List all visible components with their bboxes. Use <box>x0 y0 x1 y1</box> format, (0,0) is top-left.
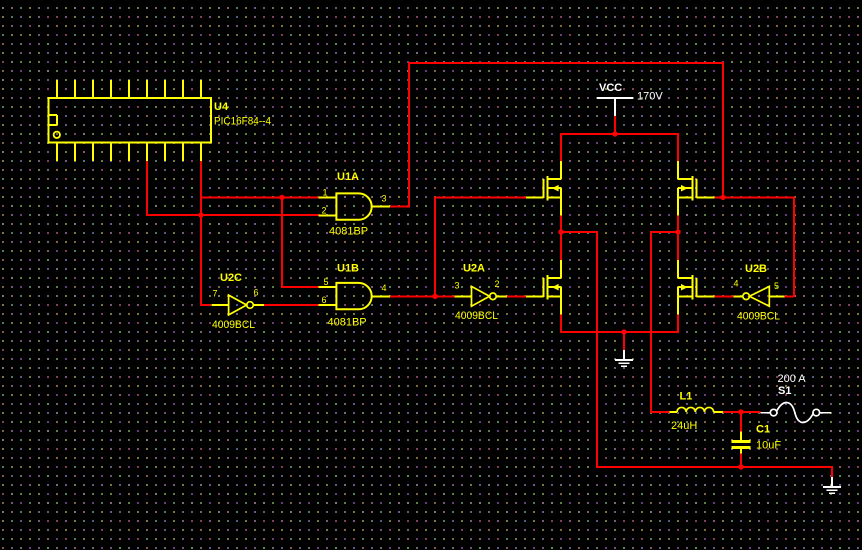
junction node B <box>279 195 284 200</box>
junction node Q2 gate <box>720 195 725 200</box>
wire left output vertical <box>596 231 598 468</box>
svg-text:VCC: VCC <box>599 82 622 94</box>
junction node VCC tap <box>612 131 617 136</box>
ground bottom right <box>823 477 841 493</box>
junction node mid-left <box>558 229 563 234</box>
wire to L1 left <box>651 411 669 413</box>
svg-text:4009BCL: 4009BCL <box>455 310 498 322</box>
inverter U2C 4009BCL <box>212 295 265 315</box>
svg-text:4: 4 <box>734 279 739 289</box>
wire U4 pin to U2C vertical <box>200 160 202 306</box>
svg-text:200 A: 200 A <box>778 373 807 385</box>
svg-text:PIC16F84--4: PIC16F84--4 <box>214 116 271 128</box>
svg-text:4009BCL: 4009BCL <box>212 319 255 331</box>
wire right output vertical <box>650 231 652 413</box>
wire bottom load rail <box>596 466 833 468</box>
MOSFET Q3 lower-left <box>526 260 561 315</box>
wire ground lead <box>623 332 625 350</box>
svg-text:1: 1 <box>323 188 328 198</box>
wire rail to Q2 drain <box>677 133 679 161</box>
svg-text:4: 4 <box>382 283 387 293</box>
svg-text:170V: 170V <box>637 91 663 103</box>
wire Q3 source down <box>560 315 562 334</box>
wire branch to U1B pin5 vertical <box>281 196 283 288</box>
svg-text:10uF: 10uF <box>756 440 781 452</box>
MOSFET Q1 upper-left <box>526 161 561 216</box>
wire down to U2B input <box>793 196 795 297</box>
svg-text:S1: S1 <box>778 385 791 397</box>
wire right drop to Q2 gate <box>722 63 724 198</box>
wire U1B pin5 horizontal <box>281 286 319 288</box>
wire U1B out to U2A in <box>388 295 455 297</box>
svg-text:6: 6 <box>254 288 259 298</box>
svg-text:5: 5 <box>324 277 329 287</box>
wire mid node to Q4 drain <box>677 232 679 260</box>
wire Q4 source down <box>677 315 679 334</box>
inverter U2A 4009BCL <box>455 286 508 306</box>
wire U2B input horizontal <box>785 295 795 297</box>
svg-text:5: 5 <box>774 281 779 291</box>
junction node C <box>432 294 437 299</box>
svg-text:U1A: U1A <box>337 171 359 183</box>
wire top horizontal run <box>408 62 724 64</box>
svg-text:3: 3 <box>382 194 387 204</box>
junction node ground tap <box>621 329 626 334</box>
wire Q2 gate node horizontal <box>715 196 795 198</box>
wire VCC lead <box>614 116 616 135</box>
wire Q1 source to mid node <box>560 216 562 234</box>
junction node mid-right <box>675 229 680 234</box>
svg-text:U2C: U2C <box>220 272 242 284</box>
IC U4 PIC16F84--4 <box>48 80 210 161</box>
wire rail to Q1 drain <box>560 133 562 161</box>
junction node A <box>198 212 203 217</box>
svg-text:U2B: U2B <box>745 263 767 275</box>
svg-text:U2A: U2A <box>463 263 485 275</box>
wire U1A output vertical riser <box>408 62 410 207</box>
wire U2B out to Q4 gate <box>714 295 734 297</box>
MOSFET Q2 upper-right <box>678 161 715 216</box>
svg-text:2: 2 <box>322 206 327 216</box>
wire C1 bottom lead wire <box>740 453 742 468</box>
wire mid node to Q3 drain <box>560 232 562 260</box>
ground under H-bridge <box>615 350 633 366</box>
wire L1 right to S1 <box>723 411 760 413</box>
wire U1A pin1 horizontal <box>200 196 319 198</box>
wire U4 pin to U1A pin2 vertical <box>146 160 148 216</box>
wire U2A out to Q3 gate <box>506 295 526 297</box>
svg-text:2: 2 <box>495 279 500 289</box>
wire VCC top rail <box>560 133 679 135</box>
AND gate U1B 4081BP <box>319 283 391 309</box>
junction node C1/rail <box>738 464 743 469</box>
wire mid-right rail <box>650 231 679 233</box>
svg-text:C1: C1 <box>756 424 770 436</box>
wire mid-left rail <box>560 231 597 233</box>
svg-text:24uH: 24uH <box>671 420 697 432</box>
svg-text:7: 7 <box>213 289 218 299</box>
MOSFET Q4 lower-right <box>678 260 715 315</box>
wire U1A pin2 horizontal <box>146 214 319 216</box>
inductor L1 24uH <box>669 407 723 412</box>
svg-text:4009BCL: 4009BCL <box>737 311 780 323</box>
switch S1 (current controlled) <box>760 403 831 423</box>
wire U2C out to U1B pin6 <box>264 304 319 306</box>
wire U1A output horizontal <box>390 206 410 208</box>
wire branch up from U2A node <box>434 196 436 296</box>
junction node L1/C1 <box>738 409 743 414</box>
wire Q2 source to mid node <box>677 216 679 234</box>
svg-text:4081BP: 4081BP <box>328 317 367 329</box>
svg-text:3: 3 <box>455 281 460 291</box>
svg-text:U1B: U1B <box>337 263 359 275</box>
wire source ground rail <box>560 331 679 333</box>
svg-text:U4: U4 <box>214 101 229 113</box>
inverter U2B 4009BCL (mirrored) <box>734 286 785 306</box>
capacitor C1 10uF <box>732 432 751 454</box>
wire rail to right ground <box>831 466 833 478</box>
AND gate U1A 4081BP <box>319 193 391 219</box>
svg-text:6: 6 <box>322 295 327 305</box>
VCC power symbol <box>597 98 633 116</box>
wire to Q1 gate horizontal <box>434 196 526 198</box>
wire C1 top lead wire <box>740 411 742 432</box>
svg-text:4081BP: 4081BP <box>329 226 368 238</box>
svg-text:L1: L1 <box>680 391 693 403</box>
wire U2C input stub wire <box>201 304 211 306</box>
